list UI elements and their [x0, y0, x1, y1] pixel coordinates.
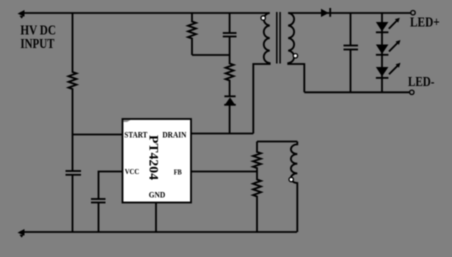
wire START node to C1	[72, 135, 74, 172]
transformer T1 core	[277, 12, 280, 64]
wire LED- rail	[304, 91, 409, 93]
wire bottom rail	[20, 231, 297, 233]
diode D2 output rectifier	[321, 8, 330, 17]
LED D3	[376, 18, 400, 33]
capacitor C3	[223, 13, 237, 55]
svg-text:START: START	[124, 129, 147, 139]
wire snubber junction	[192, 54, 230, 56]
wire START pin	[73, 134, 123, 136]
resistor R2	[188, 13, 196, 55]
label HV DC INPUT	[20, 22, 56, 51]
polarity dot secondary	[293, 54, 297, 58]
IC U1 PT4204	[123, 119, 192, 203]
svg-text:LED-: LED-	[408, 74, 435, 89]
svg-text:VCC: VCC	[125, 167, 140, 176]
LED D5	[376, 63, 401, 78]
node HV DC input off-page arrow	[18, 10, 25, 19]
resistor R1	[69, 13, 77, 135]
transformer T1 secondary winding	[288, 13, 304, 92]
node ground return off-page arrow	[18, 229, 25, 238]
svg-text:GND: GND	[149, 190, 166, 200]
LED D4	[376, 40, 401, 55]
diode D1 clamp	[224, 96, 236, 133]
capacitor C2	[91, 199, 106, 232]
wire VCC pin	[99, 172, 123, 200]
notch top-left of U1	[124, 120, 131, 122]
wire GND pin	[155, 203, 157, 233]
svg-text:INPUT: INPUT	[20, 36, 54, 51]
svg-text:LED+: LED+	[410, 15, 440, 30]
polarity dot auxiliary	[289, 177, 293, 181]
wire secondary top rail to LED+	[288, 12, 410, 14]
wire aux top	[257, 141, 297, 143]
svg-text:PT4204: PT4204	[147, 135, 162, 181]
wire LED string	[381, 13, 383, 92]
resistor R5	[253, 172, 261, 233]
svg-text:DRAIN: DRAIN	[162, 129, 187, 139]
winding auxiliary	[291, 142, 297, 233]
terminal LED-	[410, 90, 414, 94]
resistor R3	[226, 55, 234, 96]
capacitor C1	[66, 171, 82, 232]
transformer T1 primary winding	[253, 13, 269, 134]
wire DRAIN pin	[191, 133, 253, 135]
terminal LED+	[411, 11, 415, 15]
svg-text:FB: FB	[174, 167, 182, 176]
wire top rail	[20, 12, 270, 14]
capacitor C4 output	[344, 13, 359, 92]
resistor R4	[253, 142, 261, 172]
polarity dot primary	[261, 16, 265, 20]
wire FB pin	[191, 171, 257, 173]
